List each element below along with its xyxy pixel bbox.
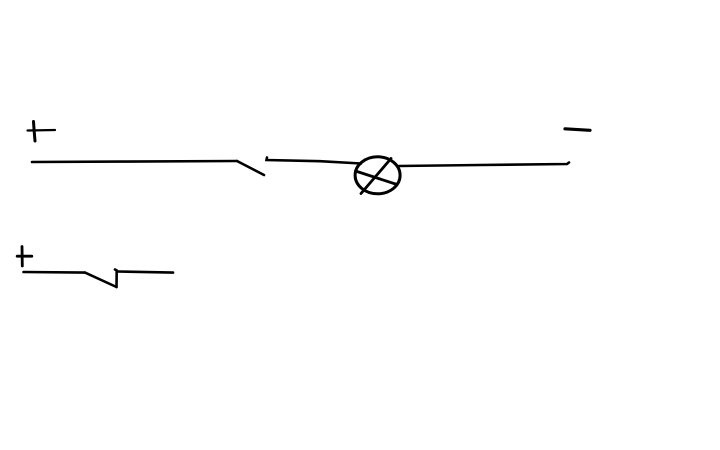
switch S1 blade (open)	[237, 161, 264, 175]
bottom switch vertical stub	[115, 270, 117, 288]
lamp L1 cross stroke (left to lower-right)	[356, 171, 398, 185]
battery minus terminal (top right)	[565, 129, 590, 131]
wire from lamp to minus terminal	[399, 163, 569, 167]
bottom wire right segment	[118, 272, 174, 273]
lamp L1 circle	[355, 157, 400, 194]
second plus terminal (bottom left)	[17, 247, 32, 267]
wire from switch to lamp	[267, 158, 362, 164]
battery plus terminal (top left)	[28, 122, 56, 142]
bottom wire left segment	[24, 271, 86, 274]
bottom switch blade (diagonal)	[85, 273, 117, 287]
lamp L1 cross stroke (top-right to bottom-left)	[361, 159, 391, 194]
wire from plus terminal to switch	[32, 161, 237, 162]
